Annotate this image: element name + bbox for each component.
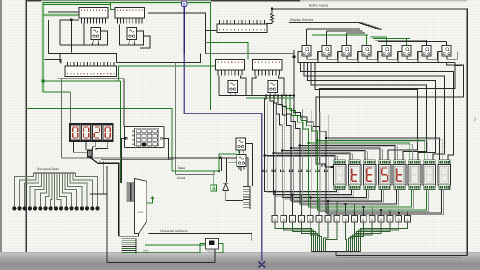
wire bus fan to connector dots [14, 173, 33, 206]
transistors Q1-Q8 (opto drivers) [302, 46, 311, 56]
wire display-column riser x=70.5 [70, 92, 72, 124]
wire Q8 bottom/left links [438, 51, 442, 62]
svg-text:0: 0 [309, 218, 311, 222]
wire horizontal feed y=45 left [60, 44, 84, 46]
wire riser x=226.3 [225, 158, 227, 183]
IC U2 (latch) [115, 8, 145, 19]
wire green U12 left elbow [219, 154, 237, 171]
wire tree trunk [312, 251, 361, 253]
junction R1 top on buffer rail [271, 8, 273, 10]
svg-text:6: 6 [362, 218, 364, 222]
wire Q2 bottom/left links [318, 51, 322, 62]
svg-text:DMS: DMS [143, 249, 149, 252]
svg-text:Clock: Clock [177, 176, 186, 180]
wire trunk diagonal from ripper [90, 157, 119, 236]
wire riser x=221.5 data net up to rail y=158 [221, 158, 223, 171]
wire grey rail y=53.5 [206, 53, 295, 55]
svg-text:1: 1 [292, 218, 294, 222]
wire green U8 bottom rail [43, 80, 121, 82]
device U13 (driver, black center) [206, 238, 219, 249]
svg-text:4: 4 [300, 218, 302, 222]
wire horizontal bus y=95.5 under U6/U7 [219, 95, 294, 97]
wire riser x=106.8 down to bottom rail [106, 166, 108, 262]
IC U1 (latch) [79, 8, 108, 19]
wire U12 bottom stub [240, 167, 242, 172]
displays DS2-DS9 (7-seg digits tESt) [334, 160, 345, 165]
wire transistor chain bottom rail [298, 51, 455, 62]
wire green keypad-left riser [120, 81, 122, 110]
wire elbow y=194 [90, 193, 107, 195]
wire dark rail from border to U1 area [48, 11, 79, 13]
svg-text:8: 8 [283, 218, 285, 222]
wire green U13 right down [215, 243, 223, 252]
wire grey-green riser x=175.5 from rail y=62.5 [175, 63, 177, 175]
svg-text:8: 8 [398, 218, 400, 222]
marker B (goto tag) [182, 1, 187, 6]
svg-text:3: 3 [389, 218, 391, 222]
wire dark riser x=205.5 from IC2 [148, 13, 206, 54]
wire R1 bottom to U5 pins rail [266, 23, 272, 25]
wire display-selects staircase descent [357, 22, 381, 30]
device U3 (oscillator) [91, 28, 101, 40]
wire latch bottoms converge tree (green) [275, 222, 312, 251]
device U12 (opto) [237, 155, 247, 167]
wire riser x=294 [293, 50, 295, 98]
wire green rail y=42.3 to U7 [207, 42, 248, 59]
wire green drop to U2 [111, 3, 115, 10]
svg-text:Character latchess: Character latchess [160, 229, 188, 233]
wire grey shadow rail y=257.8 [337, 257, 462, 259]
terminal clips on data verticals [263, 169, 267, 172]
IC U5 (buffer latch) [217, 24, 267, 33]
wire loop box over U8 [49, 53, 61, 62]
latch indicators L0-L15 [274, 212, 276, 216]
device U4 (oscillator) [127, 28, 137, 40]
wire DMX1 tip down-left loop [119, 234, 139, 237]
IC U8 (wide latch) [65, 66, 117, 77]
wire D1 bottom to ladder [226, 191, 244, 201]
device clock source (green box) [211, 185, 217, 191]
wire Q1 bottom/left links [298, 51, 302, 62]
svg-text:5: 5 [354, 218, 356, 222]
svg-text:4: 4 [407, 218, 409, 222]
wire green branch into U1 [43, 14, 79, 16]
svg-text:0: 0 [274, 218, 276, 222]
svg-text:0: 0 [371, 218, 373, 222]
IC U6 [216, 60, 245, 71]
svg-text:0: 0 [318, 218, 320, 222]
display DS1 (4-digit 7-seg, reads 0020) [70, 124, 114, 141]
wire loop-right rail y=62.5 to grey riser [117, 54, 201, 63]
junction dots on U6/U7 bus [265, 95, 267, 97]
wire latch drops from data lines [274, 192, 276, 212]
wire Data (green) y=171 [172, 170, 219, 172]
svg-text:0: 0 [345, 218, 347, 222]
wire keypad left to riser [122, 138, 126, 183]
wire U6 pins loop to U9 [218, 76, 220, 96]
buffer/diode D1 (triangle) [223, 184, 229, 191]
wire loop around U3 [84, 25, 108, 46]
wire left entry to DS2 [325, 166, 333, 168]
wire green second rail [43, 4, 111, 6]
wire staircase right of U4 [140, 36, 150, 48]
resistor R1 [270, 9, 273, 24]
svg-text:DMS: DMS [138, 211, 144, 214]
connector ladder J1 [249, 186, 251, 209]
device U9 (oscillator) [228, 81, 238, 93]
wire green U13 left link [145, 244, 206, 246]
svg-text:2: 2 [336, 218, 338, 222]
wire green DMX2 to loop [136, 243, 205, 252]
junction Data at (219,171) [218, 170, 220, 172]
IC U7 [253, 60, 283, 71]
wire riser x=215 up from bottom rail [214, 240, 216, 262]
svg-text:Display Selects: Display Selects [290, 18, 313, 22]
wire green net A: left riser to top rail [43, 3, 211, 92]
wire U11 right to riser x=252.5 [246, 143, 253, 186]
wire bottom rail y=262.4 [107, 261, 215, 263]
device U10 (oscillator) [268, 81, 278, 93]
ladder DMX2 [135, 238, 137, 253]
device U11 (opto) [236, 138, 246, 150]
wire DS1 pin drops [73, 141, 87, 152]
svg-text:Keypad: Keypad [207, 250, 216, 253]
power arrow (green) on DMX1 [147, 197, 154, 203]
DMX1 input hatch pins [127, 182, 135, 184]
wire green horizontal y=92 to display column [43, 91, 71, 93]
wire grey rail y=159.5 [101, 159, 174, 161]
wire spur to U5 with junction [206, 30, 219, 32]
wire rail y=157.8 to frame x=248 [168, 158, 248, 186]
svg-text:Data: Data [178, 166, 185, 170]
wire green U11-U12 link [238, 150, 240, 155]
wire green net glow [43, 3, 211, 93]
wire chain tailA to DS2 entry [320, 62, 456, 167]
wire fan from staircase to transistor tops [307, 28, 361, 30]
bus ripper under DS1 [88, 150, 93, 157]
wire keypad right to riser x=168.3 [162, 138, 168, 159]
svg-text:8: 8 [327, 218, 329, 222]
wire bottom rail y=255.6 to right border riser [336, 255, 467, 257]
keypad left pin [125, 137, 127, 139]
wire Display-Selects rail y=22.4 [289, 21, 357, 23]
wire riser x=103.7 from ripper trunk [103, 161, 105, 194]
wire Clock (grey) y=174.5 [176, 171, 215, 175]
wire U1 pin to U3 net [82, 23, 84, 26]
demux DMX1 (trapezoid) [134, 179, 146, 234]
wire data bus verticals with branches [265, 96, 337, 192]
wire from U1 left pins to left riser [60, 20, 79, 45]
wire Q5 bottom/left links [378, 51, 382, 62]
junction at (294,56.7) [293, 55, 296, 58]
svg-text:Buffer Inputs: Buffer Inputs [309, 3, 328, 7]
wire Q3 bottom/left links [338, 51, 342, 62]
wire blue tag route from B marker to origin [184, 7, 262, 261]
wire loop around U4 [120, 25, 144, 46]
wire U7 pins loop to U10 [252, 76, 256, 96]
svg-text:›: › [473, 113, 477, 125]
wire green long rail y=65.8 [119, 66, 216, 81]
junction keypad left [124, 137, 126, 139]
wire received-data bus rail [34, 172, 76, 174]
wire U8 bottom dark rail [58, 79, 124, 127]
wire character-latches rail y=233.5 [148, 234, 251, 241]
wire chain tail right [455, 62, 462, 65]
wire green rail y=108.6 from border to Data riser [26, 109, 172, 171]
wire Q6 bottom/left links [398, 51, 402, 62]
connector dots row (17 pins) [12, 206, 16, 210]
wire green horizontal y=97.8 [246, 97, 294, 99]
wire riser x=61.4 to y=158 rail [61, 79, 168, 158]
wire Buffer-Inputs rail y=8.7 to right border drop [272, 9, 467, 256]
wire Q7 bottom/left links [418, 51, 422, 62]
wire Q4 bottom/left links [358, 51, 362, 62]
svg-text:8: 8 [380, 218, 382, 222]
wire chain tailB to DS2 entry [316, 62, 464, 167]
junction (220.3,157.8) [219, 157, 221, 159]
junction at (71.3,19.8) [70, 18, 73, 21]
wire green clock box drop from Data rail [213, 171, 215, 185]
keypad KP1 [125, 127, 165, 148]
wire riser x=71.3 down to U8 loop [70, 20, 72, 53]
svg-text:Received Data: Received Data [37, 167, 59, 171]
marker origin (blue X) [259, 262, 266, 268]
wire chain U3 to U4 region [91, 42, 93, 45]
wire transistor-output nested loops (right side) [300, 62, 453, 160]
svg-text:M: M [99, 160, 101, 163]
junction green at (43,81) [42, 80, 45, 83]
keypad right pin [160, 137, 162, 139]
wire green rail turn at x=210.5 descending [210, 3, 212, 110]
